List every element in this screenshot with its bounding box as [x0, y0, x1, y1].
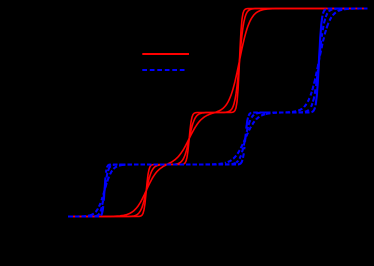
legend blue dashed sample line	[142, 69, 187, 71]
blue dashed staircase curve 1	[68, 9, 368, 217]
red solid staircase curve 2	[68, 9, 367, 217]
blue dashed staircase curve 2	[68, 9, 368, 217]
legend red solid sample line	[142, 53, 189, 55]
blue dashed staircase curve 3	[68, 9, 368, 217]
red solid staircase curve 3	[68, 9, 367, 217]
red solid staircase curve 1	[68, 9, 367, 217]
